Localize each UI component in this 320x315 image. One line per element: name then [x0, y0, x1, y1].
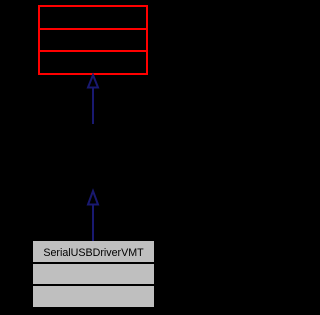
inheritance arrow 1 hollow head	[88, 75, 98, 88]
red box divider 1	[38, 28, 148, 30]
red box divider 2	[38, 50, 148, 52]
gray box divider 1	[33, 262, 154, 264]
inheritance arrow 1 shaft	[92, 89, 94, 125]
SerialUSBDriverVMT node body	[33, 241, 154, 307]
red base-class box (truncated node)	[39, 6, 147, 74]
gray box divider 2	[33, 284, 154, 286]
inheritance arrow 2 shaft	[92, 206, 94, 242]
inheritance arrow 2 hollow head	[88, 191, 98, 205]
svg-text:SerialUSBDriverVMT: SerialUSBDriverVMT	[43, 247, 144, 259]
